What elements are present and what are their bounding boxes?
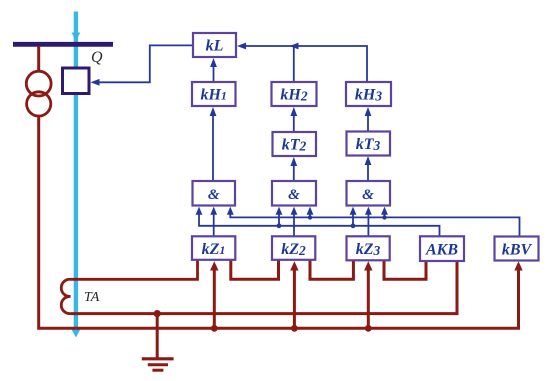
current transformer TA [61,260,197,314]
wire TA bottom line to AKB right stub [71,261,458,314]
wire kT3 to kH3 [365,107,372,131]
wire kZ2 to AND2 center input [291,207,298,236]
wire supply arrow into kZ1 [210,261,218,331]
AND gate 2 [272,181,316,206]
breaker Q [63,68,90,94]
transformer T (two circles) [26,46,51,116]
svg-text:kZ2: kZ2 [281,241,306,258]
AND gate 3 [347,181,391,206]
block AKB [420,236,464,261]
svg-text:kH2: kH2 [280,87,307,104]
wire kH3 output up to kL [290,43,368,81]
svg-text:AKB: AKB [425,242,458,259]
block kT2 [273,132,317,156]
AND gate 1 [193,181,236,206]
svg-text:kT3: kT3 [356,136,381,153]
ground [142,314,174,371]
wire kZ1 right stub to kZ2 left stub [231,260,279,280]
svg-text:&: & [208,187,220,203]
wire kL to breaker Q (trip) [91,45,194,85]
block kH3 [346,82,391,106]
block kZ2 [272,236,315,259]
block kZ1 [192,236,235,259]
wire kZ3 to AND3 center input [365,207,372,236]
svg-text:kT2: kT2 [282,137,307,154]
wire left vertical + bottom bus to kBV [39,115,523,328]
wire supply arrow into kZ2 [290,261,298,331]
wire AND1 to kH1 [210,107,217,181]
block kBV [495,237,539,261]
wire supply arrow into kZ3 [364,261,372,331]
wire kZ2 right stub to kZ3 left stub [310,260,353,280]
svg-text:&: & [362,187,374,203]
block kL [193,33,236,57]
block kT3 [347,132,391,156]
block kH2 [272,82,317,106]
wire kH1 to kL [210,58,217,81]
junction dot ground tap [154,310,161,317]
block kZ3 [347,236,390,260]
block kH1 [192,82,236,106]
svg-text:TA: TA [84,290,100,305]
wire kT2 to kH2 [290,107,297,132]
feeder line (cyan) [71,12,81,338]
wire kH2 output up to kL [237,43,294,81]
wire kZ1 to AND1 center input [210,207,217,236]
wire kBV to right inputs of AND gates [227,207,520,237]
svg-text:kBV: kBV [502,242,533,259]
wire kZ3 right stub to AKB left stub [384,260,426,280]
svg-text:&: & [288,187,300,203]
svg-text:Q: Q [91,49,103,66]
wire AND3 to kT3 [365,156,372,181]
bus bar [13,42,113,47]
svg-text:kL: kL [206,38,224,55]
svg-text:kZ1: kZ1 [202,241,226,258]
svg-text:kZ3: kZ3 [356,241,381,258]
svg-text:kH3: kH3 [355,87,382,104]
wire AKB to left inputs of AND gates [196,207,440,236]
svg-text:kH1: kH1 [200,87,226,104]
wire AND2 to kT2 [290,157,297,181]
